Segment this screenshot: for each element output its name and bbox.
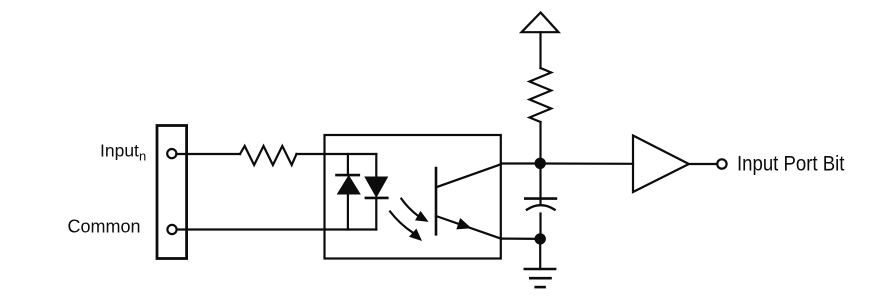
node B junction <box>535 234 545 244</box>
wire emitter to node B <box>501 238 540 240</box>
wire Input_n pin to resistor R1 <box>176 153 240 155</box>
terminal block TB1 <box>157 126 187 259</box>
wire supply to resistor R2 <box>539 32 541 68</box>
resistor R1 <box>240 146 297 165</box>
svg-text:Common: Common <box>68 217 141 237</box>
wire node A to buffer U2 <box>541 162 634 165</box>
light arrow 2 <box>390 212 422 242</box>
power supply symbol <box>522 13 559 33</box>
node A junction <box>535 158 545 168</box>
resistor R2 (pull-up) <box>530 68 552 122</box>
terminal pin Input_n <box>167 149 176 158</box>
wire Common pin to optocoupler cathode line <box>177 228 377 230</box>
LED D1 (up-pointing diode) <box>337 154 360 230</box>
wire node B to ground <box>539 239 541 269</box>
capacitor C1 <box>525 163 556 239</box>
optocoupler U1 body <box>325 135 501 259</box>
buffer U2 <box>633 136 689 193</box>
wire resistor R1 to optocoupler anode line <box>297 153 377 155</box>
LED D2 (down-pointing diode) <box>366 154 388 230</box>
wire buffer U2 to output terminal <box>689 163 717 165</box>
output terminal <box>717 159 726 168</box>
ground <box>525 269 555 287</box>
terminal pin Common <box>167 225 176 234</box>
wire resistor R2 to node A <box>539 122 541 163</box>
phototransistor Q1 <box>436 164 501 238</box>
wire collector to node A <box>501 162 541 164</box>
svg-text:Input Port Bit: Input Port Bit <box>737 153 845 176</box>
light arrow 1 <box>401 199 428 222</box>
